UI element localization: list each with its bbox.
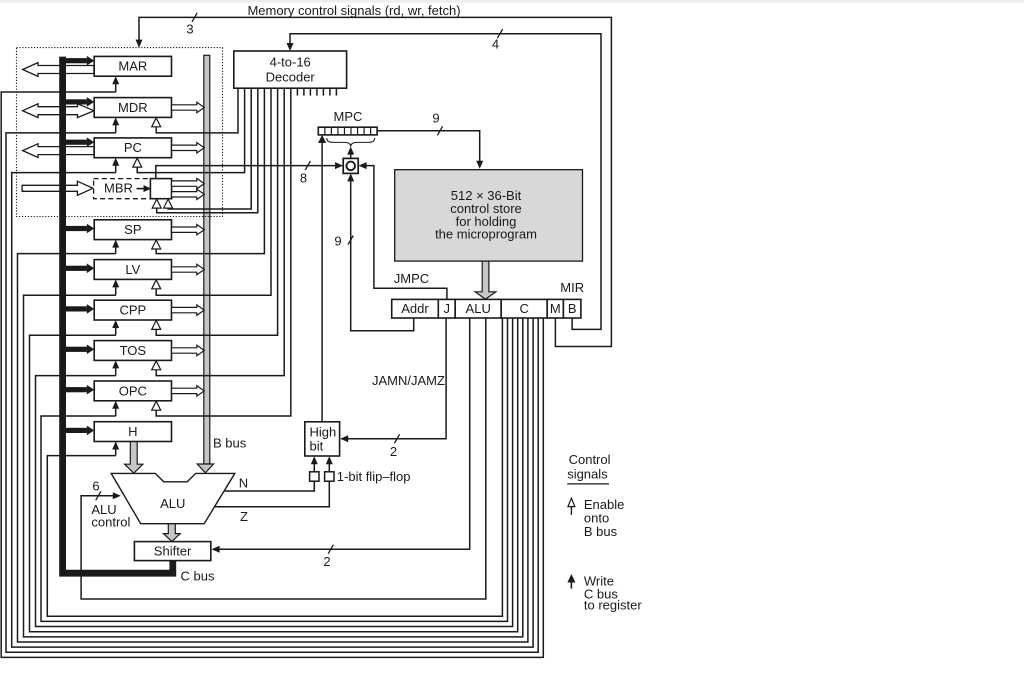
flip-flop square Z [325, 472, 334, 481]
wire O-gate output to MPC brace [347, 147, 354, 159]
svg-text:6: 6 [92, 479, 99, 494]
write arrow into OPC [112, 401, 119, 409]
write arrow into MDR [112, 117, 119, 125]
svg-text:High: High [310, 424, 337, 439]
4-to-16 decoder box [234, 51, 347, 88]
svg-text:MAR: MAR [118, 59, 147, 74]
svg-text:control: control [91, 515, 130, 530]
memory data bidirectional arrow (MDR) [23, 104, 94, 118]
svg-text:3: 3 [186, 22, 193, 37]
wire write-enable LV (C field wrap) [24, 287, 523, 637]
svg-text:H: H [128, 424, 137, 439]
svg-text:N: N [239, 476, 248, 491]
B-bus enable arrow MBRU [164, 199, 173, 208]
CPP to B bus arrow [172, 305, 205, 315]
wire write-enable MDR (C field wrap) [6, 125, 538, 652]
MPC brace [327, 138, 375, 147]
C bus write arrow into CPP [66, 304, 94, 314]
svg-text:1-bit flip–flop: 1-bit flip–flop [337, 469, 411, 484]
svg-text:PC: PC [124, 140, 142, 155]
High bit box [305, 422, 340, 456]
svg-text:JAMN/JAMZ: JAMN/JAMZ [372, 373, 445, 388]
O-gate (OR) box [343, 158, 358, 173]
control store box [395, 170, 583, 261]
svg-text:OPC: OPC [119, 383, 147, 398]
MPC input arrow (from High bit path) [318, 135, 326, 143]
memory address out arrow (MAR) [23, 63, 94, 77]
svg-text:SP: SP [124, 222, 141, 237]
svg-text:ALU: ALU [466, 301, 491, 316]
decoder unused output stubs [297, 88, 336, 95]
legend enable text [584, 497, 624, 539]
write arrow into LV [112, 279, 119, 287]
B-bus enable arrow CPP [152, 320, 161, 329]
svg-text:M: M [550, 301, 561, 316]
wire MIR Addr field to O-gate (9 bits) [347, 173, 414, 330]
C bus write arrow into H [66, 426, 94, 436]
register OPC [94, 381, 171, 401]
register CPP [94, 300, 171, 320]
svg-text:signals: signals [567, 466, 608, 481]
PC to B bus arrow [172, 143, 205, 153]
write arrow into PC [112, 158, 119, 166]
C bus (thick black) [63, 57, 173, 574]
wire B-bus enable MBRU (from decoder) [168, 88, 251, 209]
wire ALU N output to flip-flop [224, 481, 314, 491]
wire write-enable MAR (C field wrap) [1, 84, 543, 657]
memory address out arrow (PC) [23, 144, 94, 158]
LV to B bus arrow [172, 264, 205, 274]
svg-text:B bus: B bus [213, 436, 247, 451]
N label [239, 476, 248, 491]
MBR to B bus arrow (unsigned) [172, 189, 205, 199]
svg-text:ALU: ALU [160, 496, 185, 511]
svg-text:MIR: MIR [560, 280, 584, 295]
wire B-bus enable TOS (from decoder) [156, 88, 284, 375]
slash 2 on JAMN/JAMZ wire [390, 434, 400, 459]
JMPC label [394, 271, 429, 286]
B-bus enable arrow PC [133, 158, 142, 167]
dotted box around memory interface registers [17, 48, 223, 217]
svg-text:Decoder: Decoder [266, 70, 316, 85]
memory data in arrow (MBR) [22, 181, 93, 195]
wire B-bus enable OPC (from decoder) [156, 88, 291, 416]
wire JAMN/JAMZ from MIR J field to High bit (2 bits) [340, 318, 446, 442]
slash 3 on memory control wire [186, 13, 197, 37]
svg-text:bit: bit [310, 439, 324, 454]
svg-text:8: 8 [300, 171, 307, 186]
svg-text:4: 4 [492, 37, 499, 52]
slash 4 on decoder wire [492, 29, 503, 51]
MIR label [560, 280, 584, 295]
B bus (gray vertical bar into ALU) [197, 55, 213, 473]
svg-text:to register: to register [584, 598, 642, 613]
register PC [94, 138, 171, 158]
legend write text [584, 573, 642, 612]
wire write-enable CPP (C field wrap) [30, 318, 518, 632]
legend write-C-bus arrow [567, 574, 575, 589]
svg-text:JMPC: JMPC [394, 271, 429, 286]
OPC to B bus arrow [172, 386, 205, 396]
register MBR (dashed box) [94, 179, 151, 199]
wire write-enable OPC (C field wrap) [41, 318, 508, 621]
wire B-bus enable MDR (from decoder) [156, 88, 238, 133]
C bus write arrow into OPC [66, 385, 94, 395]
legend enable-onto-B-bus arrow [568, 498, 575, 515]
MBR to B bus arrow (signed) [172, 178, 205, 188]
flip-flop square N [310, 472, 319, 481]
svg-text:Memory control signals (rd, wr: Memory control signals (rd, wr, fetch) [247, 3, 460, 18]
register SP [94, 220, 171, 240]
MBR internal arrow [137, 185, 152, 192]
wire MBR to O-gate (8 bits) [156, 162, 343, 179]
B-bus enable arrow SP [152, 240, 161, 249]
slash 8 on MBR wire [300, 161, 311, 185]
write arrow into H [112, 442, 119, 450]
C bus write arrow into PC [66, 137, 94, 147]
svg-text:B bus: B bus [584, 524, 618, 539]
ALU control labels [91, 502, 130, 530]
wire B-bus enable SP (from decoder) [156, 88, 264, 253]
write arrow into TOS [112, 360, 119, 368]
JAMN/JAMZ label [372, 373, 445, 388]
wire memory control signals (MIR M field wrap to top, 3 bits) [136, 17, 612, 346]
svg-text:J: J [444, 301, 451, 316]
svg-text:2: 2 [323, 554, 330, 569]
svg-text:9: 9 [432, 111, 439, 126]
wire write-enable PC (C field wrap) [12, 166, 533, 648]
wire B-bus enable MBR (from decoder) [157, 88, 258, 213]
svg-text:MPC: MPC [334, 109, 363, 124]
B-bus enable arrow OPC [152, 401, 161, 410]
svg-text:9: 9 [334, 234, 341, 249]
Z label [240, 509, 248, 524]
B-bus enable arrow TOS [152, 361, 161, 370]
C bus write arrow into MAR [66, 56, 94, 66]
MIR register (Addr J ALU C M B) [392, 299, 581, 318]
svg-text:Addr: Addr [401, 301, 429, 316]
wire shifter control from MIR ALU field (2 bits) [212, 318, 470, 553]
register LV [94, 260, 171, 280]
register MDR [94, 98, 171, 118]
slash 9 on MPC-to-store wire [432, 111, 442, 136]
C bus write arrow into LV [66, 264, 94, 274]
svg-text:4-to-16: 4-to-16 [270, 55, 311, 70]
SP to B bus arrow [172, 225, 205, 235]
wire ALU Z output to flip-flop [215, 481, 330, 506]
write arrow into SP [112, 240, 119, 248]
svg-text:TOS: TOS [120, 343, 147, 358]
B-bus enable arrow MBR [152, 199, 161, 208]
legend control signals heading [567, 452, 610, 484]
wire write-enable SP (C field wrap) [18, 247, 528, 642]
svg-text:the microprogram: the microprogram [435, 227, 537, 242]
shifter box [134, 542, 210, 561]
svg-text:B: B [568, 301, 577, 316]
TOS to B bus arrow [172, 345, 205, 355]
wire B-bus enable PC (from decoder) [137, 88, 244, 172]
register MAR [94, 56, 171, 76]
C bus write arrow into TOS [66, 345, 94, 355]
svg-text:C: C [520, 301, 529, 316]
svg-text:Z: Z [240, 509, 248, 524]
MDR to B bus arrow [172, 102, 205, 112]
slash 9 on Addr wire [334, 234, 353, 249]
slash 6 on ALU control wire [92, 479, 101, 501]
write arrow into CPP [112, 320, 119, 328]
B bus label text [213, 436, 247, 451]
wire MPC to control store (9 bits) [377, 131, 483, 169]
wire flip-flop N to High bit [311, 456, 318, 472]
svg-text:CPP: CPP [119, 303, 146, 318]
wire flip-flop Z to High bit [326, 456, 333, 472]
svg-text:2: 2 [390, 444, 397, 459]
wire write-enable TOS (C field wrap) [36, 318, 513, 626]
svg-text:LV: LV [125, 262, 140, 277]
wire B-bus enable LV (from decoder) [156, 88, 271, 295]
write arrow into MAR [112, 76, 119, 84]
MBR output box [150, 179, 171, 199]
wire MIR B field wrap to 4-to-16 decoder (4 bits) [287, 34, 602, 330]
wire write-enable H (C field wrap) [47, 318, 502, 616]
C bus write arrow into MDR [66, 97, 94, 107]
wire ALU control from MIR ALU field (6 bits) [81, 318, 486, 599]
C bus label [181, 569, 215, 584]
ALU trapezoid [111, 473, 235, 523]
svg-text:MBR: MBR [104, 180, 133, 195]
H to ALU arrow (gray) [125, 442, 143, 474]
control store to MIR arrow (gray) [475, 261, 496, 299]
wire JMPC from MIR J field to O-gate [359, 162, 447, 299]
svg-text:C bus: C bus [181, 569, 215, 584]
ALU to shifter arrow (gray) [164, 524, 181, 542]
1-bit flip-flop label [337, 469, 411, 484]
slash 2 on shifter control wire [323, 545, 333, 569]
MPC register (hatched) [318, 109, 377, 135]
svg-text:Control: Control [569, 452, 611, 467]
B-bus enable arrow LV [152, 280, 161, 289]
B-bus enable arrow MDR [152, 118, 161, 127]
wire High bit to MPC [319, 135, 326, 422]
svg-text:Shifter: Shifter [154, 544, 192, 559]
register TOS [94, 341, 171, 361]
svg-text:MDR: MDR [118, 100, 148, 115]
C bus write arrow into SP [66, 224, 94, 234]
register H [94, 422, 171, 442]
title memory control signals [247, 3, 460, 18]
wire B-bus enable CPP (from decoder) [156, 88, 277, 335]
